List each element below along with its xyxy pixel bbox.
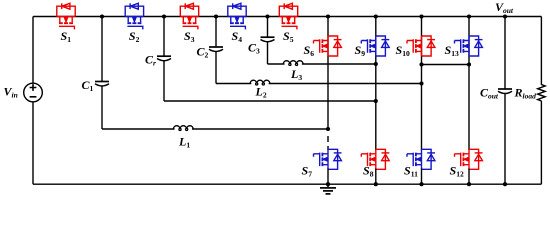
junction Cr/leg2 [374, 99, 378, 103]
junction C1/top rail [100, 14, 104, 18]
switch S9 [361, 36, 389, 56]
svg-text:S4: S4 [232, 29, 243, 44]
wire Cr line [164, 100, 376, 102]
junction L2/leg3 [419, 81, 423, 85]
junction connector/leg4 [467, 62, 471, 66]
switch S12 [455, 149, 483, 169]
wire leg4 [468, 17, 470, 151]
wire Cr branch lower [163, 61, 165, 101]
wire load branch upper [540, 17, 542, 85]
svg-text:Rload: Rload [514, 86, 537, 101]
wire bottom rail [33, 183, 541, 185]
svg-text:Vin: Vin [4, 85, 18, 100]
junction Cout/top rail [503, 14, 507, 18]
svg-text:S6: S6 [304, 43, 315, 58]
junction leg2/bottom rail [374, 182, 378, 186]
wire output cap branch lower [504, 94, 506, 185]
svg-text:S3: S3 [184, 29, 195, 44]
junction leg2/top rail [374, 14, 378, 18]
svg-text:C2: C2 [197, 45, 209, 60]
wire input riser upper [32, 17, 34, 84]
inductor L1 [173, 126, 193, 131]
svg-text:S9: S9 [355, 43, 366, 58]
junction leg4/top rail [467, 14, 471, 18]
junction Cr/top rail [162, 14, 166, 18]
switch S5 [279, 3, 297, 29]
junction leg1/top rail [326, 14, 330, 18]
junction connector/leg3 [419, 62, 423, 66]
resistor Rload [538, 85, 545, 101]
inductor L3 [283, 61, 303, 66]
wire leg4 lower [468, 169, 470, 185]
capacitor Cout [498, 89, 512, 94]
wire Cr branch upper [163, 17, 165, 57]
wire L3 line right [302, 63, 376, 65]
svg-text:S5: S5 [283, 29, 294, 44]
wire L1 line right [192, 128, 328, 130]
capacitor Cr [157, 56, 171, 61]
svg-text:S2: S2 [129, 29, 140, 44]
switch S8 [361, 149, 389, 169]
switch S2 [125, 3, 143, 29]
junction C3/top rail [265, 14, 269, 18]
wire leg2 [375, 17, 377, 151]
wire C3 branch lower [267, 42, 269, 64]
svg-text:S10: S10 [396, 43, 410, 58]
wire input riser lower [32, 102, 34, 184]
wire C1 branch lower [101, 86, 103, 129]
svg-text:S8: S8 [363, 164, 374, 179]
wire C2 branch lower [215, 52, 217, 84]
wire leg3 [421, 17, 423, 151]
wire C3 branch upper [267, 17, 269, 38]
svg-text:C1: C1 [82, 78, 94, 93]
ground [320, 184, 336, 194]
junction leg1/bottom rail [326, 182, 330, 186]
wire L2 line left [216, 83, 251, 85]
svg-text:Cr: Cr [145, 53, 156, 68]
wire top rail [33, 16, 541, 18]
svg-text:S13: S13 [445, 43, 459, 58]
wire leg3 lower [421, 169, 423, 185]
svg-text:L2: L2 [255, 85, 267, 100]
svg-text:Vout: Vout [495, 0, 514, 15]
wire leg2 lower [375, 169, 377, 185]
capacitor C1 [95, 82, 109, 87]
svg-text:C3: C3 [248, 41, 260, 56]
switch S11 [407, 149, 435, 169]
switch S13 [455, 36, 483, 56]
svg-text:L1: L1 [178, 135, 190, 150]
junction Cout/bottom rail [503, 182, 507, 186]
source V_in [24, 83, 43, 102]
junction leg4/bottom rail [467, 182, 471, 186]
wire L1 line left [102, 128, 175, 130]
svg-text:Cout: Cout [480, 86, 499, 101]
junction leg3/bottom rail [419, 182, 423, 186]
svg-text:L3: L3 [290, 67, 302, 82]
wire C1 branch upper [101, 17, 103, 82]
inductor L2 [250, 80, 270, 85]
capacitor C3 [261, 37, 275, 42]
switch S6 [314, 36, 342, 56]
wire L3 line left [268, 63, 285, 65]
wire leg1 dashed segment [327, 136, 329, 150]
wire L2 line right [269, 83, 422, 85]
junction L1/leg1 [326, 127, 330, 131]
svg-text:S7: S7 [302, 164, 313, 179]
switch S3 [180, 3, 198, 29]
switch S7 [314, 149, 342, 169]
switch S1 [57, 3, 75, 29]
wire leg3-leg4 connector [422, 64, 470, 66]
junction C2/top rail [214, 14, 218, 18]
svg-text:S12: S12 [450, 164, 464, 179]
wire load branch lower [540, 101, 542, 184]
wire C2 branch upper [215, 17, 217, 48]
wire output cap branch upper [504, 17, 506, 90]
capacitor C2 [209, 47, 223, 52]
wire leg1 upper [327, 17, 329, 130]
wire leg1 lower [327, 169, 329, 185]
junction leg3/top rail [419, 14, 423, 18]
switch S4 [228, 3, 246, 29]
svg-text:S1: S1 [61, 29, 72, 44]
switch S10 [407, 36, 435, 56]
junction L3/leg2 [374, 62, 378, 66]
